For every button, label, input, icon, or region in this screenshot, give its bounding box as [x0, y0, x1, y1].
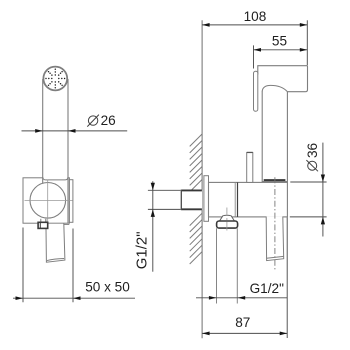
dim 87 — [202, 218, 287, 339]
dim 108 — [202, 20, 307, 65]
head face circle — [43, 67, 67, 91]
dim 55 — [254, 45, 308, 68]
spray face plate — [254, 71, 258, 111]
wand lower cap line — [267, 256, 284, 258]
shower head body — [258, 66, 308, 92]
dim G1/2 bottom — [196, 297, 287, 299]
mask over plate top edge where wand passes — [43, 176, 67, 182]
dim 50x50 — [13, 228, 135, 303]
svg-text:50 x 50: 50 x 50 — [85, 279, 130, 294]
wand lower part — [266, 216, 284, 260]
wall hatching lower — [190, 213, 202, 264]
svg-text:G1/2": G1/2" — [250, 281, 284, 296]
svg-text:55: 55 — [272, 34, 287, 49]
holder arm body — [209, 182, 288, 217]
svg-text:108: 108 — [244, 9, 267, 24]
holder plate — [23, 178, 69, 223]
dim G1/2 left — [148, 181, 181, 272]
hand shower wand (upper) — [261, 91, 263, 183]
wand lines — [42, 79, 44, 184]
dim diameter 36 — [290, 143, 327, 237]
wall flange plate — [204, 176, 209, 222]
wand-head fillet — [262, 85, 287, 91]
lower wand — [46, 224, 65, 262]
clip stems — [40, 219, 42, 223]
dim 26 — [22, 130, 128, 132]
center cross — [25, 200, 73, 202]
spray dots — [45, 68, 65, 88]
wand bottom cap — [264, 179, 286, 181]
wand centerline — [274, 177, 276, 270]
hose nut dome — [219, 215, 234, 221]
hose nut band — [217, 221, 238, 228]
clip — [38, 222, 48, 228]
wall line — [201, 20, 203, 338]
holder ring circle — [30, 183, 66, 219]
svg-text:G1/2": G1/2" — [134, 231, 151, 269]
svg-text:26: 26 — [101, 113, 116, 128]
holder hook stub — [247, 153, 253, 183]
svg-text:87: 87 — [235, 315, 250, 330]
clamp saddle — [43, 178, 68, 180]
hose pipe lines — [216, 228, 218, 303]
G1/2 inlet stub — [181, 190, 202, 211]
holder side tab — [69, 180, 73, 223]
wall hatching upper — [190, 134, 202, 192]
svg-text:36: 36 — [305, 143, 320, 158]
arm seam lines — [234, 182, 236, 217]
